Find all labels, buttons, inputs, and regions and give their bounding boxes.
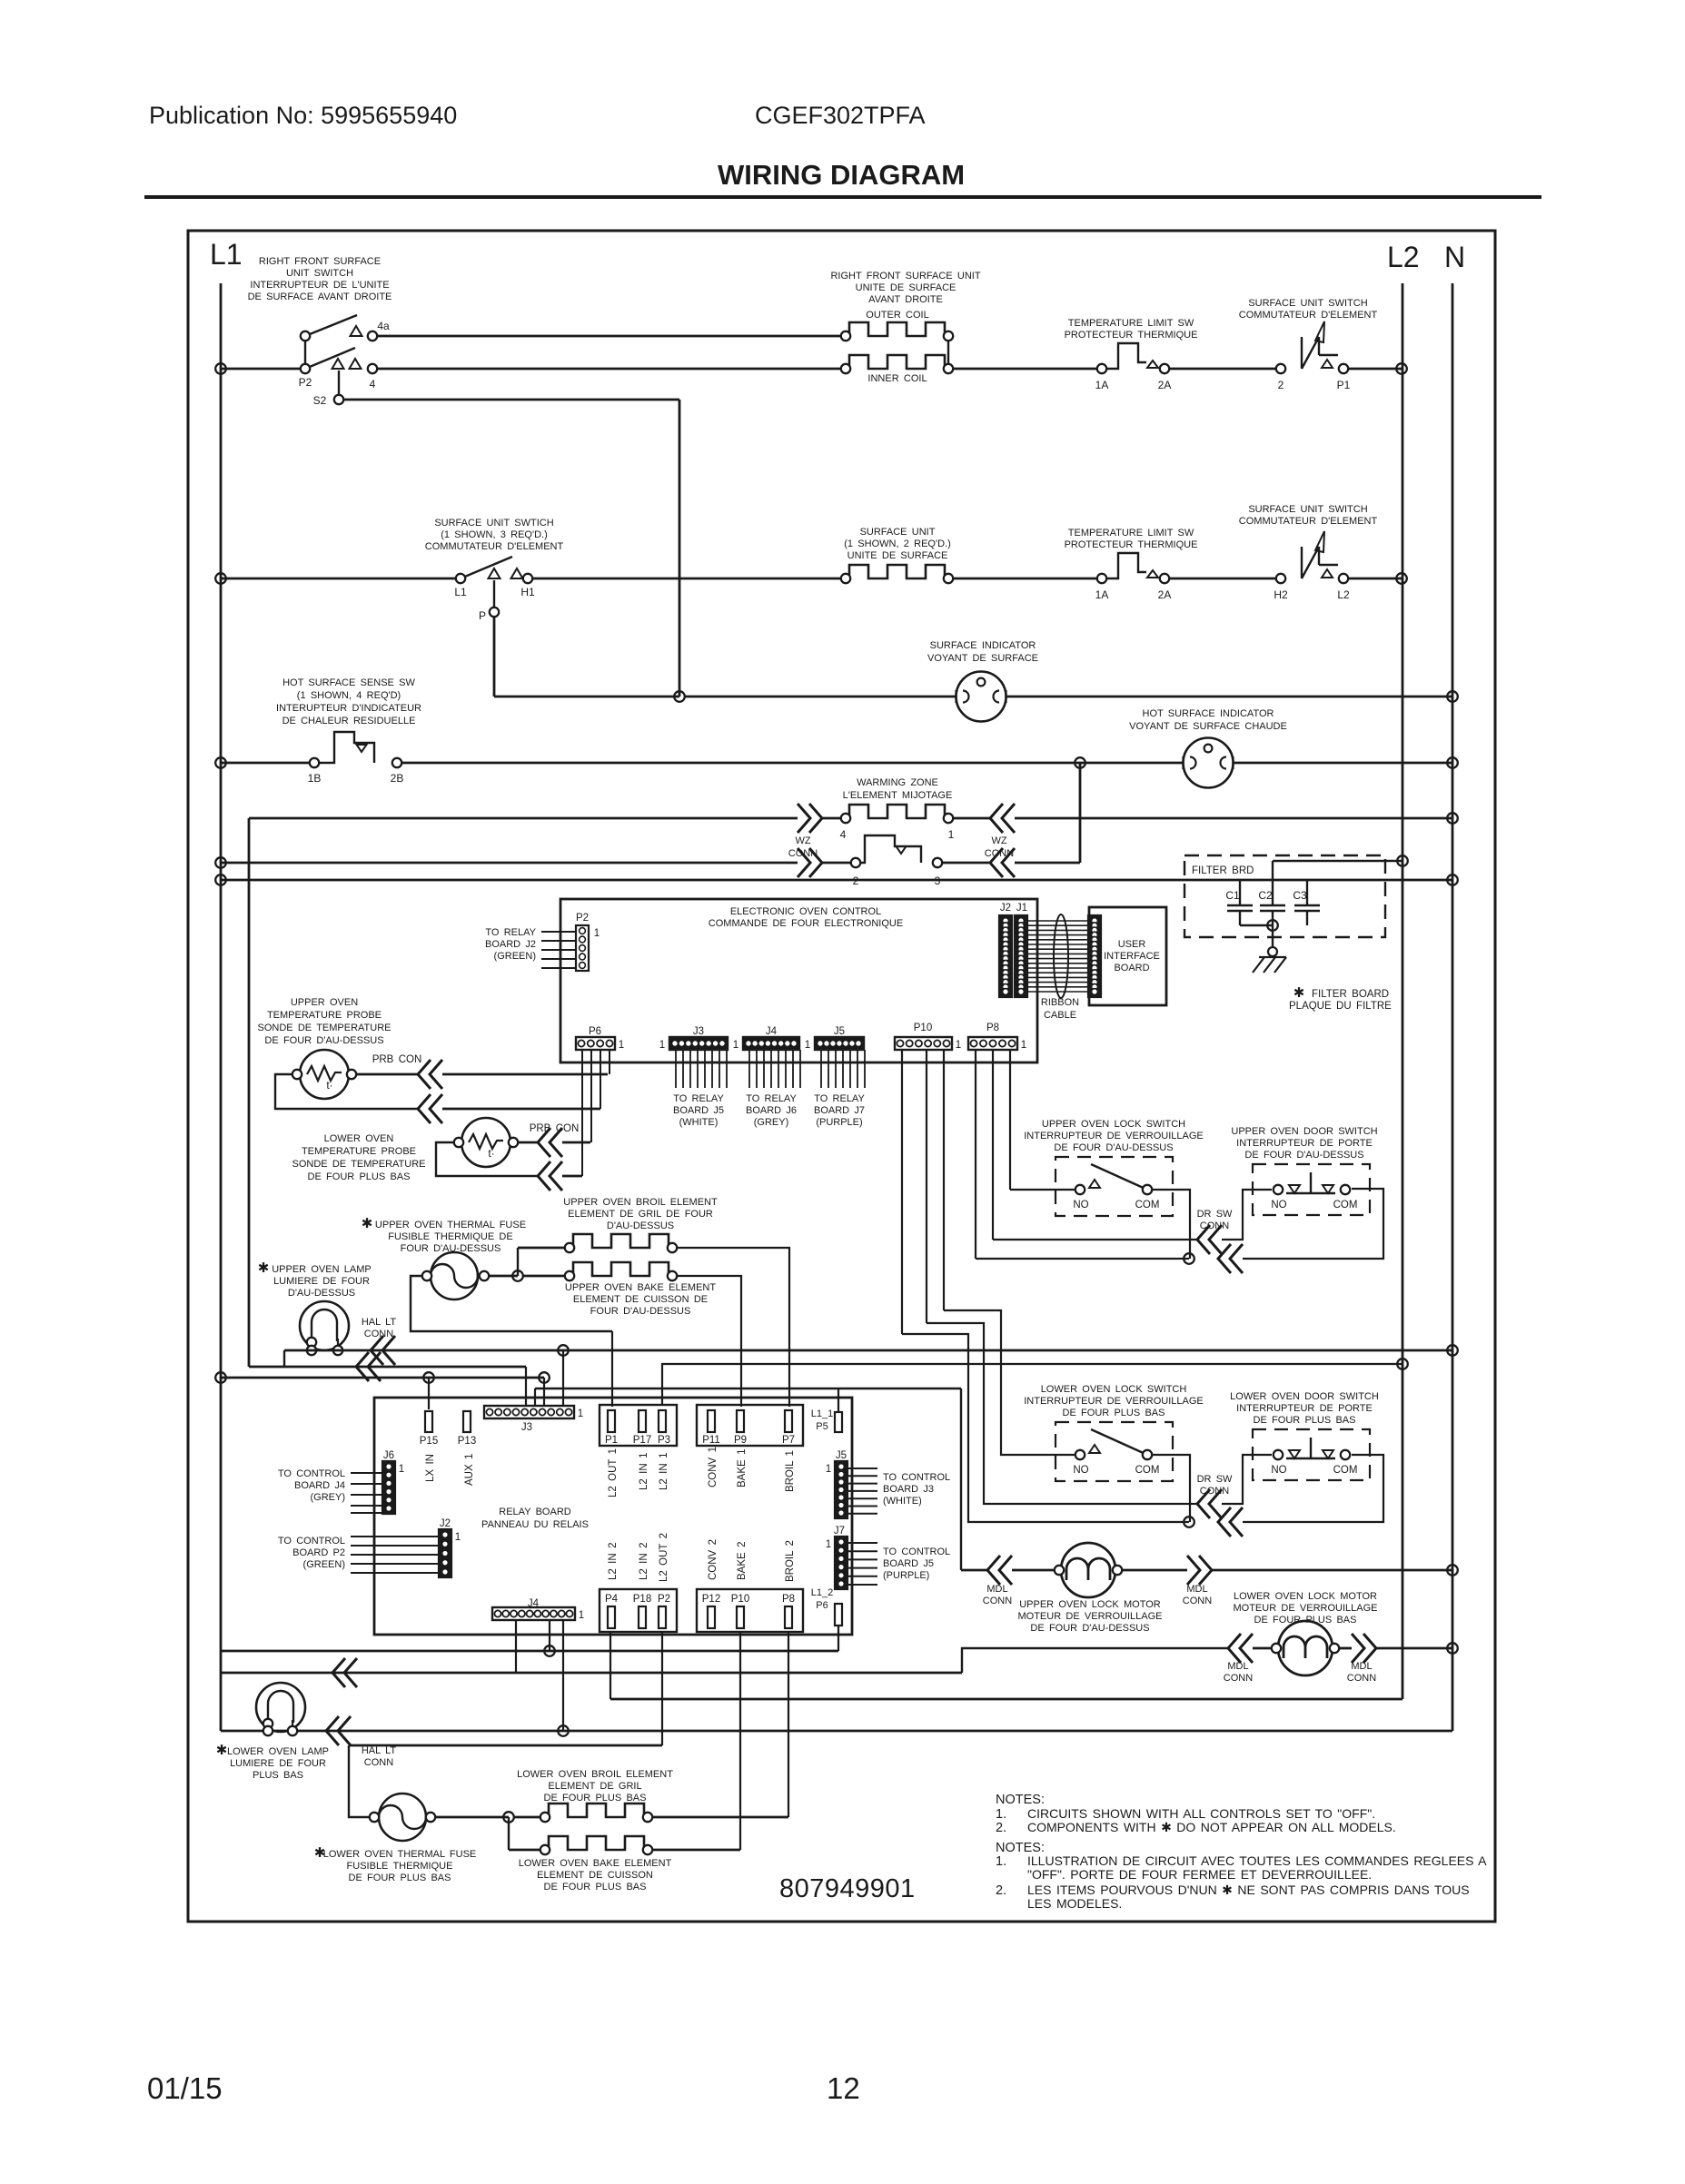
svg-text:P6: P6 [589,1026,601,1037]
svg-text:NO: NO [1073,1200,1088,1211]
resistor lower oven temperature probe [461,1118,510,1167]
lower lamp terminal b [263,1726,273,1735]
wire drop to warming zone [1079,763,1082,863]
capacitor C3 [1294,905,1320,911]
wire lamp row lower [221,1730,1452,1733]
note fr 1b text [1027,1867,1372,1882]
svg-text:LES ITEMS POURVOUS D'NUN ✱ NE: LES ITEMS POURVOUS D'NUN ✱ NE SONT PAS C… [1027,1883,1470,1897]
wire junction to broil row [517,1248,519,1276]
label C2 [1258,889,1273,902]
MDL CONN label upper right [1183,1584,1212,1606]
wire L1 to switch row2 [221,578,461,580]
switch triangle row1 [1322,360,1333,368]
J3 eoc pin wires [676,1050,727,1088]
svg-text:COM: COM [1333,1200,1358,1211]
svg-text:1.: 1. [996,1854,1006,1869]
model number text [755,102,926,129]
switch S1 pole terminal P2 [301,364,310,373]
svg-text:CONN: CONN [364,1757,393,1768]
WZ CONN label right [985,835,1014,859]
svg-text:SURFACE UNIT SWITCH: SURFACE UNIT SWITCH [1248,298,1367,309]
MDL connector lower left [1228,1634,1253,1663]
ribbon connector J1 [1015,915,1027,997]
wire lamp row to N [284,1349,1452,1352]
svg-text:LOWER OVEN BROIL ELEMENT: LOWER OVEN BROIL ELEMENT [517,1769,673,1780]
svg-text:1A: 1A [1095,588,1109,601]
svg-text:✱: ✱ [1293,985,1305,1001]
wire P8 pin1 run [976,1258,1189,1260]
wire P2 riser [661,1632,663,1745]
svg-text:UPPER OVEN LOCK SWITCH: UPPER OVEN LOCK SWITCH [1042,1119,1185,1130]
wire lower bake return [652,1849,740,1852]
wire lower probe right [518,1141,538,1144]
HAL LT connector upper b [356,1352,381,1381]
svg-text:NO: NO [1073,1465,1088,1476]
svg-text:BAKE 2: BAKE 2 [737,1542,748,1580]
upper lock switch dashed box [1056,1157,1173,1216]
wire P3 riser to L2 [662,1364,1403,1405]
P10 pin wire 2 [926,1050,927,1323]
svg-text:C2: C2 [1258,889,1273,902]
label 1B [308,772,322,785]
label P6 [589,1026,601,1037]
svg-text:(1 SHOWN, 3 REQ'D.): (1 SHOWN, 3 REQ'D.) [441,529,548,540]
P8 pin wire 3 [1009,1050,1011,1190]
upper oven thermal fuse label [375,1220,526,1254]
temperature limit switch label row2 [1065,528,1198,550]
label J6 relay [383,1450,394,1461]
svg-text:L1: L1 [454,586,467,598]
junction wz row2 L1 [215,857,226,868]
upper oven door switch label [1231,1126,1377,1161]
lower door triangle b [1323,1450,1333,1458]
svg-text:1: 1 [805,1040,810,1051]
upper door triangle b [1323,1185,1333,1193]
warming zone connector right row1 [990,804,1015,833]
label 1 P10 [956,1040,961,1051]
connector box P12 P10 P8 [697,1589,803,1632]
J2 stub wires [351,1537,439,1573]
wire lower probe loop to P6 pin1 [562,1175,582,1178]
svg-text:LOWER OVEN LOCK MOTOR: LOWER OVEN LOCK MOTOR [1234,1591,1377,1602]
svg-text:PROTECTEUR THERMIQUE: PROTECTEUR THERMIQUE [1065,539,1198,550]
label P2 eoc [576,913,589,924]
upper bake left terminal [565,1271,574,1280]
label wz 1 [948,828,955,841]
svg-text:INTERUPTEUR D'INDICATEUR: INTERUPTEUR D'INDICATEUR [276,703,421,714]
svg-text:WARMING ZONE: WARMING ZONE [857,777,938,788]
svg-text:DE FOUR D'AU-DESSUS: DE FOUR D'AU-DESSUS [1030,1623,1149,1634]
pin P9 [737,1410,744,1432]
pin P1 [608,1410,615,1432]
lower lamp lead left [267,1720,269,1731]
svg-text:PRB CON: PRB CON [530,1123,580,1134]
svg-text:TEMPERATURE LIMIT SW: TEMPERATURE LIMIT SW [1068,528,1194,539]
note 2 line [996,1821,1006,1835]
svg-text:N: N [1444,241,1465,273]
svg-text:P17: P17 [633,1435,651,1446]
upper lamp terminal b [307,1346,316,1355]
upper thermal fuse asterisk [362,1216,373,1231]
footer date 01/15 [147,2071,223,2105]
svg-text:(GREEN): (GREEN) [303,1559,345,1570]
svg-text:COM: COM [1135,1465,1160,1476]
svg-text:ELEMENT DE GRIL DE FOUR: ELEMENT DE GRIL DE FOUR [568,1209,713,1220]
label 1 J3 relay [578,1408,583,1419]
resistor surface unit coil [846,565,948,578]
outer coil label [866,310,928,321]
DR SW CONN label lower [1197,1474,1233,1497]
label P2 [299,376,312,389]
connector J5 relay [835,1461,847,1518]
svg-text:DE FOUR PLUS BAS: DE FOUR PLUS BAS [308,1171,411,1182]
note fr 1 text [1027,1853,1487,1868]
resistor lower oven broil element [545,1804,648,1817]
switch S1 pole link [304,341,306,364]
svg-text:2A: 2A [1158,588,1172,601]
wire P8 pin3 to lock NO [1010,1189,1075,1191]
svg-text:J5: J5 [836,1450,847,1461]
svg-text:(1 SHOWN, 4 REQ'D): (1 SHOWN, 4 REQ'D) [297,690,401,701]
warming switch terminal 2 [851,858,860,867]
limit switch terminal 2A row1 [1160,364,1169,373]
svg-text:(WHITE): (WHITE) [883,1496,922,1507]
svg-text:OUTER COIL: OUTER COIL [866,310,928,321]
hot surface indicator label [1129,708,1287,732]
svg-text:ELECTRONIC OVEN CONTROL: ELECTRONIC OVEN CONTROL [730,906,881,917]
label 1 P8 [1021,1040,1026,1051]
wire lower probe loop [436,1142,538,1176]
junction LX L1 [215,1372,226,1383]
surface coil left terminal [841,574,850,583]
svg-text:HOT SURFACE INDICATOR: HOT SURFACE INDICATOR [1143,708,1274,719]
svg-text:P6: P6 [816,1600,828,1611]
pin P8 relay [785,1606,792,1628]
pin P3 [659,1410,666,1432]
svg-text:CONN: CONN [1224,1673,1253,1684]
junction lamp J4 riser [558,1725,569,1736]
svg-text:TO RELAY: TO RELAY [485,927,536,938]
svg-text:CONN: CONN [364,1329,393,1339]
svg-text:NO: NO [1271,1200,1286,1211]
wire L1 to switch S1 row1 [221,368,305,371]
label P row2 [479,609,486,622]
capacitor C1 bottom riser [1239,911,1241,925]
svg-text:INTERRUPTEUR DE VERROUILLAGE: INTERRUPTEUR DE VERROUILLAGE [1024,1396,1204,1407]
switch S1 upper blade [305,315,357,336]
J4 pin riser a [515,1620,517,1673]
svg-text:LOWER OVEN LOCK SWITCH: LOWER OVEN LOCK SWITCH [1041,1384,1187,1395]
svg-text:J2: J2 [440,1518,451,1529]
wire P4 riser [610,1632,611,1699]
publication number text [149,102,457,129]
label LX IN [425,1454,436,1482]
capacitor C2 top riser [1272,861,1274,905]
label P7 [782,1435,795,1446]
svg-text:L'ELEMENT MIJOTAGE: L'ELEMENT MIJOTAGE [843,790,953,801]
label J4 eoc [766,1026,778,1037]
label 1 J7 [826,1539,831,1550]
svg-text:SURFACE UNIT SWTICH: SURFACE UNIT SWTICH [434,518,553,529]
wire 4a to outer coil [378,335,846,338]
upper oven lamp asterisk [258,1260,270,1276]
label P4 [605,1594,619,1605]
right front surface unit label [830,271,980,305]
junction lamp J3 riser [558,1345,569,1356]
sense switch element [320,732,374,763]
upper lock triangle [1089,1180,1100,1188]
svg-text:SONDE DE TEMPERATURE: SONDE DE TEMPERATURE [292,1159,425,1170]
title rule [144,195,1541,199]
svg-text:1: 1 [826,1464,831,1475]
svg-text:1: 1 [594,928,600,939]
svg-text:MDL: MDL [1351,1661,1372,1672]
svg-text:BOARD J5: BOARD J5 [883,1558,934,1569]
label BAKE 2 [737,1542,748,1580]
svg-text:2.: 2. [996,1821,1006,1835]
limit switch terminal 1A row2 [1097,574,1106,583]
svg-text:MDL: MDL [1186,1584,1207,1595]
svg-text:TO RELAY: TO RELAY [746,1093,797,1104]
junction indicator N [1447,691,1458,702]
connector P10 [895,1037,952,1050]
temperature limit switch label row1 [1065,318,1198,341]
svg-text:TO CONTROL: TO CONTROL [278,1536,345,1547]
svg-text:PANNEAU DU RELAIS: PANNEAU DU RELAIS [481,1519,589,1530]
wire P10 pin2 route [927,1323,1197,1504]
upper door triangle a [1289,1185,1300,1193]
svg-text:01/15: 01/15 [147,2071,223,2105]
note 1 line [996,1807,1006,1822]
svg-text:MOTEUR DE VERROUILLAGE: MOTEUR DE VERROUILLAGE [1017,1611,1162,1622]
filter board note line1 [1312,989,1389,1000]
svg-text:(1 SHOWN, 2 REQ'D.): (1 SHOWN, 2 REQ'D.) [844,539,951,549]
wire warming row1 left [249,817,798,820]
svg-text:BROIL 2: BROIL 2 [785,1540,796,1582]
svg-text:DE FOUR PLUS BAS: DE FOUR PLUS BAS [544,1793,647,1804]
connector J5 eoc [815,1037,864,1050]
svg-text:RIGHT FRONT SURFACE: RIGHT FRONT SURFACE [259,256,381,267]
svg-text:DE FOUR D'AU-DESSUS: DE FOUR D'AU-DESSUS [1244,1150,1363,1161]
svg-text:PLAQUE DU FILTRE: PLAQUE DU FILTRE [1289,1001,1392,1012]
infinite switch symbol row1 [1302,321,1338,369]
pin P4 [608,1606,615,1628]
svg-text:(GREY): (GREY) [311,1492,346,1503]
L1 rail wire [220,283,223,1731]
wire upper motor feed drop [960,1388,962,1570]
upper oven lock motor label [1017,1599,1162,1634]
label S2 [313,394,327,407]
svg-text:UPPER OVEN BROIL ELEMENT: UPPER OVEN BROIL ELEMENT [563,1197,718,1208]
label 2A row1 [1158,379,1172,391]
lower oven bake element label [519,1858,672,1892]
connector P8 [968,1037,1017,1050]
wire S2 drop [338,371,340,395]
label J3 relay [521,1422,532,1433]
wire H1 to coil row2 [533,578,846,580]
label J2 ribbon [1000,903,1011,914]
switch triangle P row2 [489,568,501,578]
svg-text:DE FOUR PLUS BAS: DE FOUR PLUS BAS [349,1873,451,1883]
label P11 [702,1435,720,1446]
ribbon cable label [1041,997,1079,1021]
label 1 J5 eoc [805,1040,810,1051]
lower lock triangle [1089,1445,1100,1453]
lower oven lock switch label [1024,1384,1204,1418]
label COM lower lock [1135,1465,1160,1476]
wire S2 down to indicator row [679,400,681,697]
svg-text:RIGHT FRONT SURFACE UNIT: RIGHT FRONT SURFACE UNIT [830,271,980,282]
wire L1 bottom to P6 relay [221,1650,838,1653]
svg-text:✱: ✱ [258,1260,270,1276]
svg-text:P1: P1 [605,1435,618,1446]
svg-text:(WHITE): (WHITE) [679,1117,719,1128]
svg-text:t·: t· [488,1147,494,1160]
svg-text:BAKE 1: BAKE 1 [737,1449,748,1487]
wire inner coil to limit switch row1 [953,368,1102,371]
MDL CONN label lower right [1347,1661,1376,1684]
svg-text:1: 1 [956,1040,961,1051]
junction P3 wire L2 [1397,1359,1408,1369]
svg-text:DE FOUR PLUS BAS: DE FOUR PLUS BAS [1254,1415,1356,1426]
lower door plunger [1286,1438,1335,1458]
note 2 text [1027,1820,1396,1834]
upper oven temperature probe label [257,997,391,1046]
svg-text:CONN: CONN [1200,1486,1229,1497]
limit switch element row2 [1107,553,1146,578]
label C1 [1225,889,1240,902]
wire lower broil return [652,1816,788,1819]
svg-text:TO CONTROL: TO CONTROL [883,1547,950,1557]
svg-text:USER: USER [1118,939,1146,950]
wire upper probe to P6 pin4 [442,1073,608,1076]
label H2 row2 [1274,588,1288,601]
wire chevron to motor [1012,1569,1059,1572]
svg-text:1: 1 [399,1464,404,1475]
HAL LT connector lower b [326,1716,351,1745]
wire junction to lower broil [513,1816,540,1819]
inner coil left terminal [841,364,850,373]
capacitor C2 bottom riser [1272,911,1274,947]
upper probe left terminal [292,1070,302,1079]
surface indicator lamp [956,672,1006,722]
P8 pin wire 2 [992,1050,994,1240]
svg-text:CONV 1: CONV 1 [708,1447,719,1487]
switch terminal H1 row2 [523,574,532,583]
lower oven lamp asterisk [216,1743,228,1758]
wire lower motor to N [1376,1647,1452,1650]
svg-text:COM: COM [1333,1465,1358,1476]
junction C2 L2 [1397,855,1408,866]
limit switch triangle row2 [1147,570,1158,578]
lower lamp lead right [292,1720,293,1731]
DR SW CONN label upper [1197,1209,1233,1231]
notes heading 1 [996,1793,1045,1807]
switch terminal P row2 [490,608,499,617]
outer coil right terminal [944,331,953,341]
wire P1 riser [611,1331,613,1407]
wire to lower bake [509,1849,540,1852]
label wz 4 [840,828,847,841]
warming limiter element [861,835,907,863]
switch triangle H1 row2 [511,568,523,578]
wire J3 pin6 to motor feed [535,1388,961,1389]
upper lock blade [1091,1164,1147,1190]
L2 rail label [1387,241,1420,273]
svg-text:2.: 2. [996,1883,1006,1898]
lower probe left terminal [454,1138,463,1147]
to control board J5 label [883,1547,950,1581]
resistor warming zone element [846,805,948,818]
label L2 IN 2 b [639,1543,649,1580]
svg-text:P10: P10 [731,1594,749,1605]
junction filter N [1447,875,1458,885]
svg-text:J4: J4 [766,1026,778,1037]
svg-text:BOARD J7: BOARD J7 [814,1105,865,1116]
sense switch terminal 2B [392,758,401,767]
capacitor C1 top riser [1239,880,1241,905]
svg-text:HOT SURFACE SENSE SW: HOT SURFACE SENSE SW [282,677,415,688]
wire S2 run [344,399,679,401]
svg-text:J3: J3 [521,1422,532,1433]
svg-text:L2 IN 1: L2 IN 1 [659,1453,669,1490]
MDL CONN label upper left [983,1584,1012,1606]
wire lower door COM loop [1243,1455,1383,1522]
svg-text:BOARD J5: BOARD J5 [673,1105,724,1116]
label 1 J3 eoc [659,1040,665,1051]
svg-text:ELEMENT DE CUISSON DE: ELEMENT DE CUISSON DE [573,1294,708,1305]
svg-text:P9: P9 [734,1435,747,1446]
lower lock NO terminal [1075,1450,1085,1459]
connector J2 relay [439,1529,451,1577]
wire wz row2 end [1015,862,1080,865]
wire hot indicator to N [1234,762,1452,765]
svg-text:1B: 1B [308,772,322,785]
lower oven broil element label [517,1769,673,1804]
ribbon cable wires [1027,921,1090,992]
svg-text:LX IN: LX IN [425,1454,436,1482]
label P8 [986,1023,999,1033]
label 2B [391,772,404,785]
lower door COM terminal [1341,1450,1350,1459]
label CONV 2 [708,1539,719,1580]
svg-text:L2: L2 [1337,588,1350,601]
label P10 [914,1023,932,1033]
svg-text:DR SW: DR SW [1197,1474,1233,1485]
label J5 eoc [834,1026,845,1037]
lower oven lock motor label [1233,1591,1377,1626]
ground symbol [1253,947,1286,973]
switch S1 contact triangle a [332,359,344,369]
lower oven door switch label [1230,1391,1379,1426]
wire upper motor to N [1212,1569,1452,1572]
wire P2 to fuse drop [349,1744,662,1747]
switch S1 contact triangle b [350,359,362,369]
svg-text:COM: COM [1135,1200,1160,1211]
svg-text:BROIL 1: BROIL 1 [785,1450,796,1492]
svg-text:L2 IN 2: L2 IN 2 [608,1543,619,1580]
HAL LT CONN label lower [362,1745,397,1768]
note fr 2 text [1027,1883,1470,1897]
switch S1 terminal S2 [334,395,343,404]
PRB CON connector lower b [538,1161,562,1191]
label L1_1 P5 [811,1408,833,1432]
wire lamp return [249,1366,526,1369]
note fr 1 line [996,1854,1006,1869]
upper door COM terminal [1341,1185,1350,1194]
wire P6 relay riser [838,1626,839,1651]
svg-text:2: 2 [1278,379,1284,391]
